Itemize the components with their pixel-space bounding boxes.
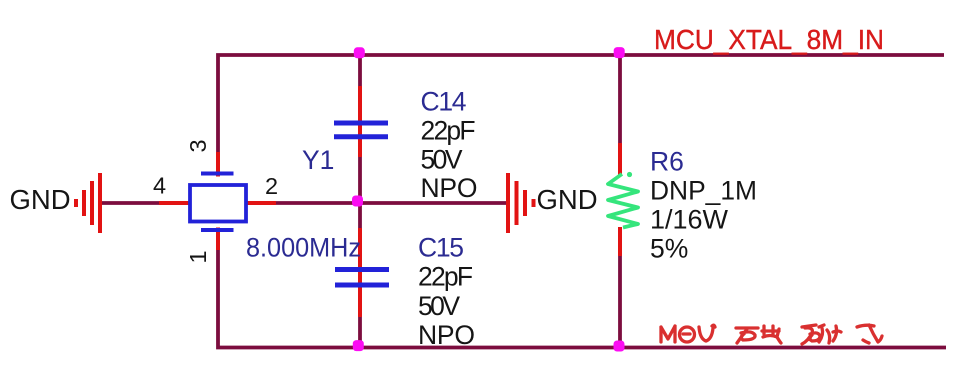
junction middle bbox=[352, 196, 363, 207]
wire C14 column bottom bbox=[358, 156, 362, 203]
capacitor C15 bottom plate bbox=[335, 283, 389, 288]
svg-text:GND: GND bbox=[10, 184, 71, 215]
resistor R6 pin marker dot bbox=[627, 172, 632, 177]
crystal Y1 body bbox=[190, 185, 246, 222]
label C15 value 22pF bbox=[418, 262, 473, 292]
label C15 voltage 50V bbox=[418, 291, 460, 321]
svg-text:C14: C14 bbox=[421, 87, 467, 117]
pin number 4 bbox=[153, 173, 166, 199]
junction top R6 bbox=[614, 47, 625, 58]
junction top C14 bbox=[354, 47, 365, 58]
pin number 1 bbox=[185, 250, 211, 263]
net label bottom garbled MCU text bbox=[661, 325, 882, 344]
label C14 voltage 50V bbox=[421, 144, 463, 174]
svg-text:3: 3 bbox=[185, 139, 211, 152]
crystal Y1 bottom plate bbox=[201, 228, 234, 232]
label C15 dielectric NPO bbox=[418, 320, 475, 350]
svg-text:1: 1 bbox=[185, 250, 211, 263]
crystal Y1 pin 3 lead bbox=[216, 152, 220, 177]
label C14 bbox=[421, 87, 467, 117]
svg-text:Y1: Y1 bbox=[302, 145, 334, 175]
ground symbol left bbox=[76, 173, 100, 233]
pin number 2 bbox=[265, 173, 278, 199]
wire C15 column top bbox=[358, 203, 362, 229]
svg-text:GND: GND bbox=[537, 184, 598, 215]
wire R6 column bottom bbox=[618, 254, 622, 347]
svg-text:22pF: 22pF bbox=[421, 116, 476, 146]
resistor R6 zigzag bbox=[608, 174, 638, 228]
label GND left bbox=[10, 184, 71, 215]
resistor R6 top lead bbox=[618, 143, 622, 175]
wire C14 column top bbox=[358, 55, 362, 87]
svg-text:50V: 50V bbox=[418, 291, 460, 321]
wire R6 column top bbox=[618, 55, 622, 144]
svg-text:5%: 5% bbox=[650, 234, 688, 264]
capacitor C15 top plate bbox=[335, 267, 389, 272]
label R6 power 1/16W bbox=[650, 205, 728, 235]
wire top bus net MCU_XTAL_8M_IN bbox=[218, 55, 944, 153]
crystal Y1 pin 4 lead bbox=[159, 201, 189, 205]
resistor R6 bottom lead bbox=[618, 227, 622, 256]
crystal Y1 pin 2 lead bbox=[247, 201, 276, 205]
capacitor C14 top plate bbox=[334, 121, 388, 126]
label 8.000MHz bbox=[246, 233, 361, 263]
label R6 value DNP_1M bbox=[650, 176, 757, 206]
wire left: left ground to crystal pin4 bbox=[101, 201, 161, 205]
label Y1 bbox=[302, 145, 334, 175]
svg-text:1/16W: 1/16W bbox=[650, 205, 728, 235]
junction bottom R6 bbox=[614, 341, 625, 352]
wire bottom bus bbox=[218, 249, 946, 348]
svg-text:NPO: NPO bbox=[418, 320, 475, 350]
junction bottom C15 bbox=[353, 340, 364, 351]
svg-text:8.000MHz: 8.000MHz bbox=[246, 233, 361, 263]
capacitor C15 leads bbox=[358, 228, 362, 317]
svg-text:NPO: NPO bbox=[421, 173, 478, 203]
crystal Y1 pin 1 lead bbox=[216, 228, 220, 251]
crystal Y1 top plate bbox=[201, 172, 234, 176]
svg-text:DNP_1M: DNP_1M bbox=[650, 176, 757, 206]
svg-text:C15: C15 bbox=[418, 232, 464, 262]
wire C15 column bottom bbox=[358, 316, 362, 347]
capacitor C14 leads bbox=[358, 86, 362, 157]
svg-text:MCU_XTAL_8M_IN: MCU_XTAL_8M_IN bbox=[654, 24, 884, 55]
net label MCU_XTAL_8M_IN bbox=[654, 24, 884, 55]
label GND right bbox=[537, 184, 598, 215]
label C15 bbox=[418, 232, 464, 262]
wire middle: crystal pin2 to right ground bbox=[274, 201, 507, 205]
svg-text:22pF: 22pF bbox=[418, 262, 473, 292]
label C14 dielectric NPO bbox=[421, 173, 478, 203]
svg-text:50V: 50V bbox=[421, 144, 463, 174]
svg-text:4: 4 bbox=[153, 173, 166, 199]
ground symbol right bbox=[508, 173, 534, 233]
svg-text:2: 2 bbox=[265, 173, 278, 199]
label R6 bbox=[650, 147, 684, 177]
svg-text:R6: R6 bbox=[650, 147, 684, 177]
pin number 3 bbox=[185, 139, 211, 152]
label C14 value 22pF bbox=[421, 116, 476, 146]
label R6 tolerance 5% bbox=[650, 234, 688, 264]
capacitor C14 bottom plate bbox=[334, 134, 388, 139]
